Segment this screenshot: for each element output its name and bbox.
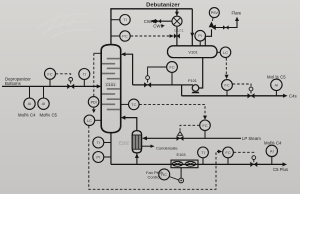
valve pressure control on condenser outlet: [174, 34, 180, 39]
svg-text:Debutanizer: Debutanizer: [146, 2, 180, 8]
wire hot vapor bypass: [191, 9, 193, 46]
pump P-101: [192, 85, 199, 92]
valve reflux: [144, 82, 151, 87]
svg-text:Mol% C5: Mol% C5: [40, 112, 58, 117]
svg-text:AI: AI: [275, 82, 279, 87]
svg-text:PSV: PSV: [211, 11, 219, 15]
condenser E-101: [172, 16, 182, 26]
instrument FC feed: [45, 68, 56, 79]
svg-text:TI: TI: [97, 140, 101, 145]
svg-text:C101: C101: [106, 82, 115, 87]
svg-text:FC: FC: [225, 150, 230, 155]
svg-text:E101: E101: [174, 28, 184, 33]
svg-text:Mol % C5: Mol % C5: [267, 75, 286, 80]
wire reflux line: [133, 84, 182, 86]
instrument FC bottoms: [223, 147, 234, 158]
valve feed: [67, 84, 74, 89]
wire reboiler return: [123, 118, 137, 131]
svg-text:AI: AI: [270, 148, 274, 153]
svg-text:TI: TI: [83, 72, 87, 77]
signal TC to FC steam: [139, 104, 205, 116]
instrument AI distillate: [271, 79, 282, 90]
instrument FC steam: [200, 120, 211, 131]
svg-text:Mol% C4: Mol% C4: [264, 140, 282, 145]
drum V-101: [168, 46, 218, 58]
wire distillate product line: [182, 95, 285, 97]
column label C101: [105, 82, 117, 87]
svg-text:AI: AI: [42, 101, 46, 106]
svg-text:Bottoms: Bottoms: [5, 81, 21, 86]
svg-text:PDI: PDI: [91, 100, 97, 104]
svg-text:C5 Plus: C5 Plus: [273, 167, 288, 172]
signal PDI upper tap: [94, 52, 101, 54]
instrument FC distillate: [222, 80, 233, 91]
instrument TC column: [121, 103, 129, 105]
svg-text:TC: TC: [131, 102, 136, 107]
svg-text:Flare: Flare: [232, 10, 242, 15]
svg-text:PI: PI: [96, 155, 100, 160]
signal PC to condenser outlet valve: [131, 35, 170, 37]
svg-text:AI: AI: [28, 101, 32, 106]
instrument PC overhead: [111, 35, 120, 37]
valve flare line: [223, 25, 229, 29]
instrument PSV: [209, 8, 219, 18]
svg-text:LC: LC: [87, 118, 92, 123]
svg-text:TI: TI: [123, 17, 127, 22]
valve bottoms: [250, 162, 257, 167]
svg-text:E102: E102: [119, 141, 129, 146]
wire CWR line: [152, 20, 172, 22]
svg-text:PI: PI: [198, 33, 202, 38]
instrument PI bottoms stub: [104, 156, 111, 158]
svg-text:V101: V101: [188, 49, 198, 54]
instrument AI feed 2: [43, 86, 45, 98]
wire PSV connection: [205, 29, 211, 46]
wire pump suction: [199, 58, 203, 89]
svg-text:FC: FC: [169, 65, 174, 70]
svg-text:TI: TI: [201, 150, 205, 155]
valve steam: [177, 136, 184, 141]
arrow CWS: [161, 24, 165, 27]
valve CWR: [156, 19, 162, 23]
column trays: [102, 59, 120, 110]
signal PDI lower tap: [93, 107, 95, 110]
wire condensate line: [142, 145, 152, 147]
wire bottoms line: [111, 163, 285, 165]
svg-text:LC: LC: [223, 50, 228, 55]
wire condenser outlet to drum: [176, 27, 178, 46]
column C-101 shell: [101, 45, 121, 133]
wire overhead riser: [110, 9, 112, 45]
signal FC to feed valve: [56, 74, 71, 77]
wire pump discharge / reflux header: [182, 84, 193, 86]
svg-text:LP Steam: LP Steam: [242, 136, 261, 141]
wire overhead top line: [110, 8, 192, 10]
valve distillate: [248, 93, 255, 98]
instrument LC column: [84, 115, 95, 126]
svg-text:FC: FC: [224, 83, 229, 88]
wire reboiler feed stub: [136, 154, 138, 165]
wire condenser inlet drop: [176, 9, 178, 16]
instrument PI drum: [195, 30, 206, 41]
svg-text:Control: Control: [148, 175, 161, 180]
air cooler E-103: [171, 160, 198, 168]
instrument TI overhead: [111, 19, 120, 21]
svg-text:E103: E103: [177, 152, 186, 157]
instrument PDI column: [88, 97, 99, 108]
instrument HC fan pitch: [159, 169, 170, 180]
wire reflux riser: [122, 54, 133, 85]
instrument FC reflux: [167, 62, 178, 73]
svg-text:C4s: C4s: [289, 94, 297, 99]
instrument TI feed: [79, 69, 90, 80]
svg-text:Condensate: Condensate: [156, 145, 178, 150]
instrument TI bottoms line: [198, 147, 209, 158]
signal FC steam to valve: [180, 125, 200, 131]
instrument AI bottoms: [266, 145, 277, 156]
fan pitch actuator: [180, 168, 182, 179]
reboiler E-102: [132, 131, 141, 153]
wire steam line: [146, 137, 241, 139]
signal FC to distillate valve: [233, 84, 251, 87]
svg-text:PC: PC: [122, 34, 128, 39]
relief valve PSV: [209, 22, 215, 28]
svg-text:Mol% C4: Mol% C4: [18, 112, 36, 117]
signal FC bottoms to valve: [234, 152, 254, 154]
wire column bottoms drop: [110, 133, 112, 165]
instrument AI feed 1: [29, 86, 31, 98]
instrument LC drum: [217, 51, 220, 53]
instrument TI bottoms stub: [104, 142, 111, 144]
svg-text:FC: FC: [47, 71, 52, 76]
wire feed line: [2, 85, 99, 87]
signal LC to FC bottoms (feedback loop): [89, 126, 219, 190]
wire flare line: [216, 19, 238, 28]
wire distillate drop: [181, 85, 183, 96]
svg-text:FC: FC: [202, 123, 207, 128]
signal LC to FC distillate: [225, 58, 227, 76]
svg-text:P101: P101: [188, 79, 197, 83]
